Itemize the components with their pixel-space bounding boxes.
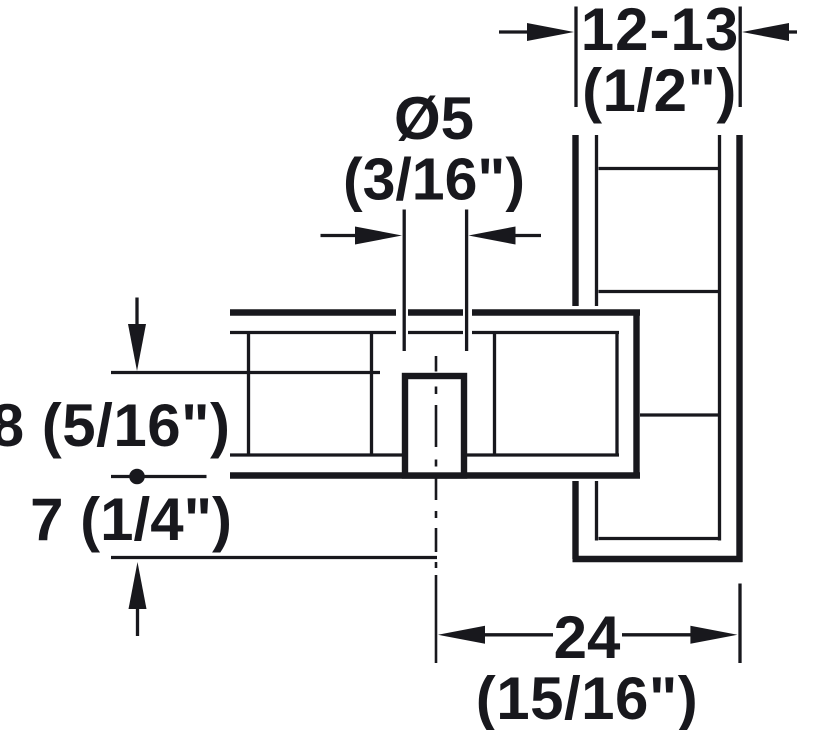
svg-text:24: 24 [554, 604, 621, 671]
svg-text:7 (1/4"): 7 (1/4") [30, 486, 232, 553]
svg-text:(3/16"): (3/16") [343, 147, 525, 213]
svg-text:(15/16"): (15/16") [476, 665, 699, 730]
svg-text:(1/2"): (1/2") [582, 57, 737, 124]
svg-text:8 (5/16"): 8 (5/16") [0, 392, 231, 459]
svg-text:12-13: 12-13 [581, 0, 739, 63]
svg-text:Ø5: Ø5 [394, 85, 474, 152]
